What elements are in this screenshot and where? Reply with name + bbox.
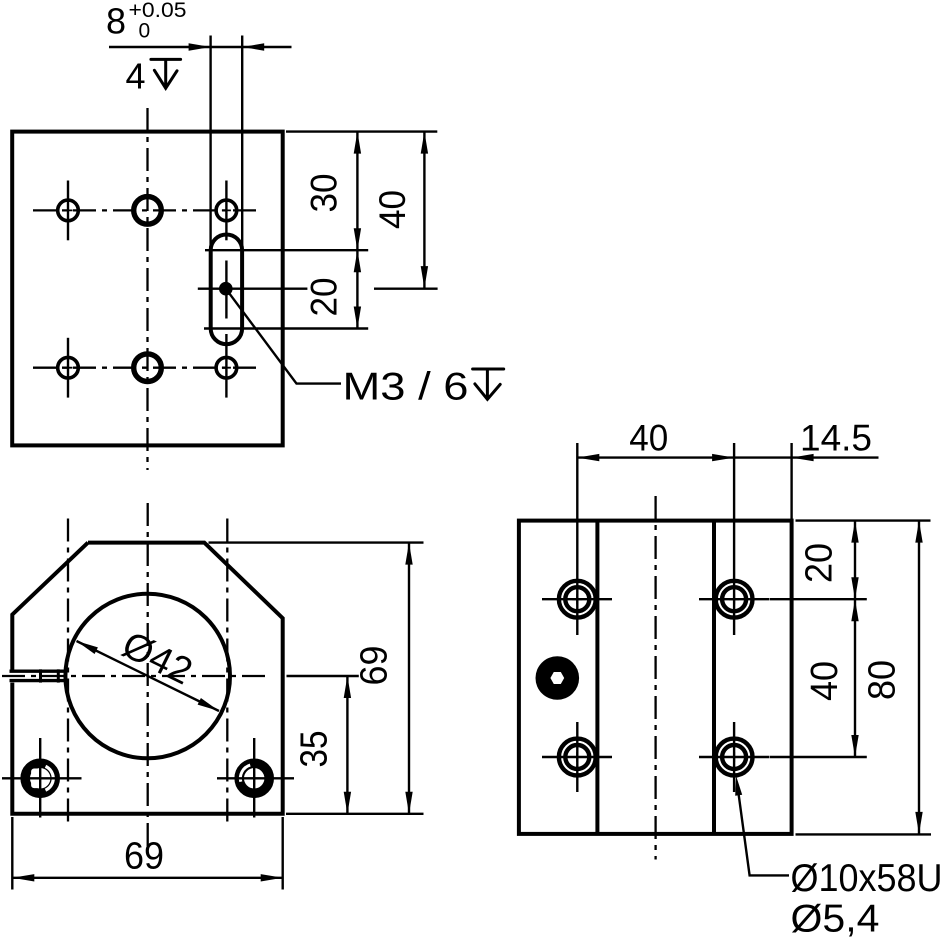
arrow [198, 698, 219, 711]
horizontal centerline [2, 675, 266, 677]
arrow [421, 132, 428, 154]
arrow [354, 307, 361, 329]
arrow [851, 521, 858, 543]
svg-text:30: 30 [303, 174, 344, 213]
side view inner edge [712, 521, 716, 834]
leader line [226, 289, 341, 384]
slot [211, 235, 242, 345]
arrow [12, 874, 34, 881]
svg-text:M3 / 6: M3 / 6 [343, 366, 469, 409]
extension line [374, 288, 438, 290]
bore circle [65, 594, 230, 759]
hole crosshair [67, 181, 69, 241]
leader line [738, 786, 790, 875]
arrow [735, 776, 742, 796]
extension line [11, 817, 13, 890]
arrow [344, 792, 351, 814]
extension line [770, 756, 867, 758]
hole crosshair [542, 756, 612, 758]
svg-text:4: 4 [126, 56, 146, 97]
side view centerline [654, 496, 656, 860]
top view outline [12, 132, 283, 446]
side view outline [519, 521, 792, 834]
extension line [576, 443, 578, 635]
large hole [134, 197, 162, 225]
arrow [242, 43, 264, 50]
arrow [261, 874, 283, 881]
top view row2 centerline [33, 367, 262, 369]
svg-text:40: 40 [629, 417, 668, 458]
set screw [536, 656, 580, 700]
slit bar [57, 669, 60, 682]
M3 hole dot [219, 282, 233, 296]
hole crosshair [576, 722, 578, 792]
arrow [189, 43, 211, 50]
svg-text:69: 69 [124, 836, 164, 878]
svg-text:20: 20 [303, 278, 344, 317]
arrow [915, 521, 922, 543]
dimension line 40 [423, 132, 425, 289]
arrow [712, 454, 734, 461]
hole crosshair [67, 338, 69, 398]
arrow [344, 676, 351, 698]
extension line [209, 541, 424, 543]
side view inner edge [595, 521, 599, 834]
extension line [282, 817, 284, 890]
arrow [77, 641, 98, 654]
arrow [915, 812, 922, 834]
dimension line 30-20 [356, 132, 358, 329]
arrow [421, 266, 428, 288]
dimension line 69 [12, 877, 282, 879]
svg-text:69: 69 [354, 646, 396, 686]
clamp screw hole [239, 763, 269, 793]
svg-text:40: 40 [804, 661, 846, 701]
counterbored hole [559, 581, 596, 618]
dimension line 80 [918, 521, 920, 834]
slit line [10, 679, 67, 682]
front view outline [12, 543, 282, 814]
svg-text:80: 80 [862, 660, 904, 700]
svg-text:40: 40 [372, 190, 413, 229]
small hole [58, 357, 79, 378]
large hole [134, 354, 162, 382]
arrow [405, 543, 412, 565]
hole crosshair [699, 598, 770, 600]
svg-text:35: 35 [294, 731, 336, 768]
extension line [796, 833, 932, 835]
extension line [287, 675, 359, 677]
counterbored hole [716, 581, 753, 618]
counterbored hole [716, 739, 753, 776]
arrow [577, 454, 599, 461]
hole crosshair [542, 598, 612, 600]
dimension line 20-40 [854, 521, 856, 757]
extension line [205, 249, 368, 251]
extension line [241, 36, 243, 251]
dimension line 35 [346, 676, 348, 814]
svg-text:0: 0 [139, 20, 151, 43]
extension line [286, 813, 424, 815]
depth symbol [151, 59, 181, 88]
hole crosshair [217, 777, 294, 779]
arrow [354, 250, 361, 272]
svg-text:8: 8 [106, 1, 126, 42]
slit bar [39, 669, 42, 682]
arrow [354, 132, 361, 154]
top view row1 centerline [33, 209, 262, 211]
clamp screw hole [25, 763, 55, 793]
vertical centerline [226, 519, 228, 828]
vertical centerline [67, 519, 69, 828]
arrow [851, 577, 858, 599]
arrow [354, 228, 361, 250]
hole crosshair [2, 777, 82, 779]
diameter dimension line [77, 641, 220, 711]
arrow [851, 735, 858, 757]
small hole [216, 200, 237, 221]
extension line [198, 288, 308, 290]
top view vertical centerline [146, 108, 148, 470]
arrow [405, 792, 412, 814]
svg-text:14.5: 14.5 [800, 417, 872, 458]
slot center line [225, 261, 227, 319]
extension line [204, 327, 368, 329]
arrow [851, 599, 858, 621]
svg-text:Ø10x58U: Ø10x58U [791, 857, 943, 900]
dimension line 69 [408, 543, 410, 814]
svg-text:+0.05: +0.05 [129, 0, 187, 22]
dimension line 8 [109, 46, 292, 48]
extension line [286, 130, 437, 132]
hole crosshair [39, 738, 41, 818]
counterbored hole [559, 739, 596, 776]
slit line [10, 670, 67, 673]
hole crosshair [699, 756, 770, 758]
hole crosshair [733, 722, 735, 792]
small hole [216, 357, 237, 378]
extension line [770, 598, 867, 600]
extension line [733, 443, 735, 635]
arrow [792, 454, 814, 461]
dimension line 40 [577, 456, 878, 458]
depth symbol [473, 369, 504, 399]
hole crosshair [225, 334, 227, 398]
svg-text:Ø5,4: Ø5,4 [791, 898, 880, 940]
hole crosshair [253, 738, 255, 818]
hole crosshair [225, 181, 227, 241]
extension line [790, 443, 792, 521]
small hole [58, 200, 79, 221]
extension line [209, 36, 211, 251]
svg-text:20: 20 [799, 543, 841, 583]
extension line [796, 519, 931, 521]
vertical centerline [147, 503, 149, 854]
